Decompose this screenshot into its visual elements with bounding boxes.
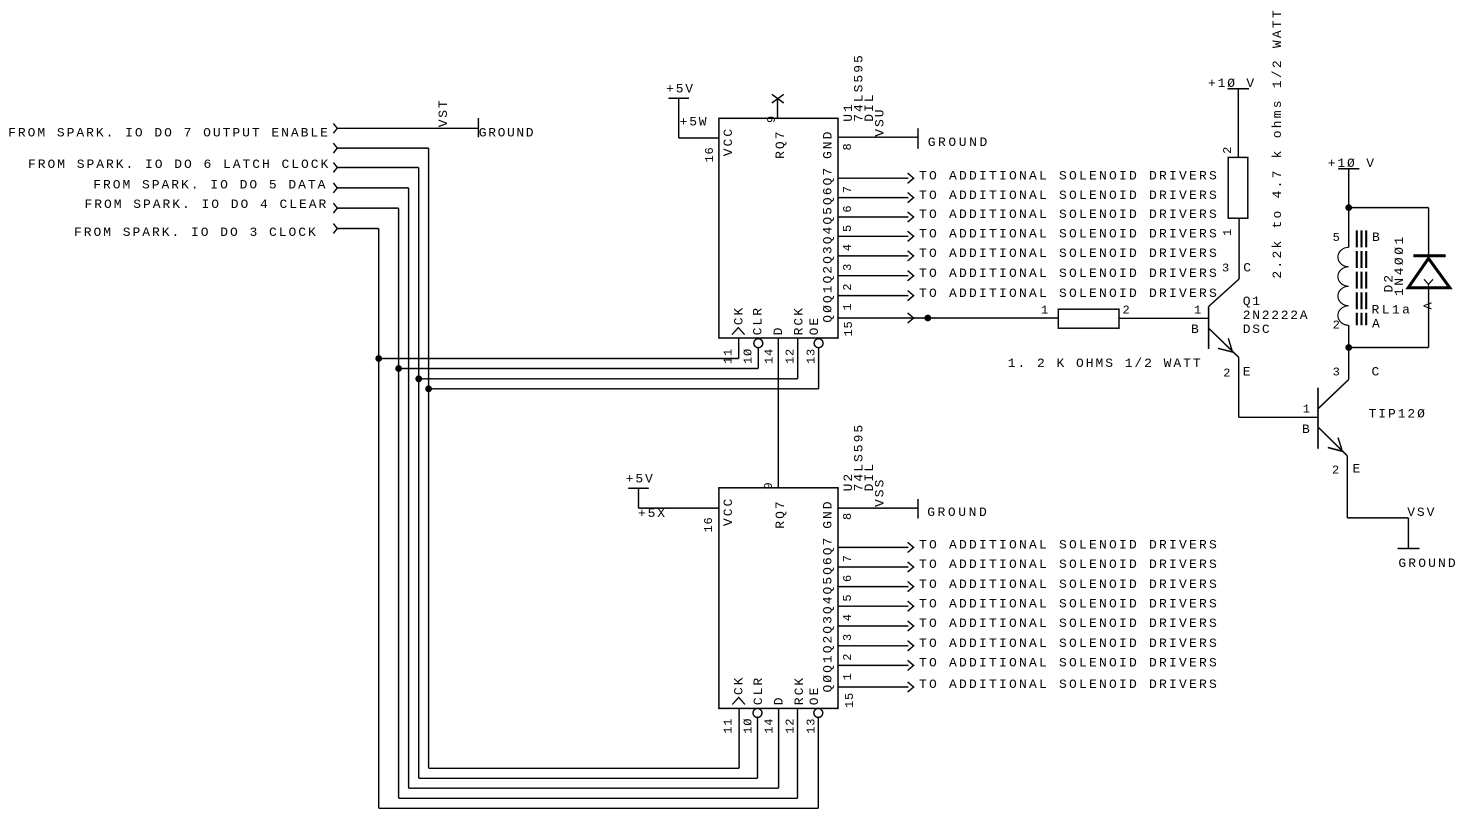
svg-text:4: 4 (841, 613, 855, 621)
wire U1.D (pin 14) to U2.RQ7 (pin 9) (777, 338, 779, 488)
input connector arrow 4 (333, 183, 337, 193)
svg-text:14: 14 (763, 718, 777, 734)
svg-text:3: 3 (1333, 366, 1341, 380)
resistor R 1.2K body (1058, 309, 1119, 328)
svg-text:2: 2 (1221, 146, 1235, 154)
svg-text:TO ADDITIONAL SOLENOID DRIVERS: TO ADDITIONAL SOLENOID DRIVERS (919, 538, 1219, 553)
U1 Q4 output arrow (908, 231, 914, 241)
TIP120 base bar (1317, 388, 1319, 449)
svg-text:1. 2 K OHMS 1/2 WATT: 1. 2 K OHMS 1/2 WATT (1008, 356, 1203, 371)
Q0 wire continuation arrow (908, 313, 914, 323)
wire input row 4 horizontal (337, 187, 408, 189)
input connector arrow 1 (333, 123, 337, 133)
wire input row 3 horizontal (337, 167, 418, 169)
Q1 emitter diagonal (1209, 328, 1239, 357)
svg-text:D: D (771, 326, 786, 336)
svg-text:+5X: +5X (638, 506, 667, 521)
relay coil top lead (1348, 208, 1350, 248)
svg-text:GND: GND (821, 499, 836, 528)
svg-text:1: 1 (1041, 304, 1049, 318)
svg-text:CLR: CLR (751, 306, 766, 335)
svg-text:6: 6 (841, 574, 855, 582)
wire Q1 emitter to TIP120 base (1239, 416, 1318, 418)
svg-text:TO ADDITIONAL SOLENOID DRIVERS: TO ADDITIONAL SOLENOID DRIVERS (919, 577, 1219, 592)
svg-text:TO ADDITIONAL SOLENOID DRIVERS: TO ADDITIONAL SOLENOID DRIVERS (919, 246, 1219, 261)
svg-text:14: 14 (763, 348, 777, 364)
wire +10V to relay top (1348, 169, 1350, 208)
svg-text:GROUND: GROUND (928, 135, 990, 150)
svg-text:2N2222A: 2N2222A (1243, 308, 1310, 323)
U2 output arrow row 6 (908, 641, 914, 651)
svg-text:C: C (1243, 261, 1253, 276)
svg-text:1N4ØØ1: 1N4ØØ1 (1392, 234, 1407, 296)
U2 pin 12 stub (797, 708, 799, 798)
Q1 emitter arrow (1218, 338, 1234, 352)
wire to U2 pin 12 (399, 797, 798, 799)
svg-text:+5V: +5V (666, 81, 695, 96)
wire input row 2 horizontal (337, 147, 428, 149)
wire +5X to U2 VCC (639, 507, 719, 509)
svg-text:2: 2 (1333, 319, 1341, 333)
svg-text:GND: GND (821, 130, 836, 159)
svg-text:E: E (1353, 462, 1363, 477)
wire pullup resistor to Q1 collector (1238, 218, 1240, 279)
svg-text:2: 2 (841, 653, 855, 661)
svg-text:8: 8 (841, 512, 855, 520)
relay RL1a core bars (1356, 230, 1358, 325)
U1 Q1 output arrow (908, 291, 914, 301)
svg-text:VCC: VCC (721, 497, 736, 526)
svg-text:TO ADDITIONAL SOLENOID DRIVERS: TO ADDITIONAL SOLENOID DRIVERS (919, 557, 1219, 572)
U2 OE inversion bubble (814, 708, 823, 717)
svg-text:FROM SPARK. IO DO 4 CLEAR: FROM SPARK. IO DO 4 CLEAR (85, 197, 329, 212)
svg-text:15: 15 (843, 692, 857, 708)
svg-text:TO ADDITIONAL SOLENOID DRIVERS: TO ADDITIONAL SOLENOID DRIVERS (919, 656, 1219, 671)
svg-text:1: 1 (1221, 228, 1235, 236)
svg-text:FROM SPARK. IO DO 5 DATA: FROM SPARK. IO DO 5 DATA (93, 177, 327, 192)
U2 Q0 output wire (838, 686, 908, 688)
U1 Q4 output wire (838, 235, 908, 237)
svg-text:CK: CK (731, 306, 746, 326)
U1 OE inversion bubble (814, 339, 823, 348)
U1 Q6 output arrow (908, 193, 914, 203)
svg-text:D: D (771, 695, 786, 705)
svg-text:6: 6 (841, 205, 855, 213)
U1 +5V power bar (668, 97, 689, 99)
input connector arrow 2 (333, 143, 337, 153)
U1 pin 12 stub (797, 338, 799, 379)
svg-text:8: 8 (841, 142, 855, 150)
svg-text:GROUND: GROUND (927, 505, 989, 520)
wire diode cathode vertical (1428, 208, 1430, 256)
U1 Q5 output arrow (908, 212, 914, 222)
svg-text:9: 9 (762, 481, 776, 489)
wire input row 5 horizontal (337, 207, 398, 209)
U2 Q2 output wire (838, 645, 908, 647)
U1 pin 10 stub below bubble (757, 348, 759, 369)
svg-text:GROUND: GROUND (1398, 556, 1457, 571)
svg-text:QØQ1Q2Q3Q4Q5Q6Q7: QØQ1Q2Q3Q4Q5Q6Q7 (821, 536, 836, 693)
wire CLOCK to U1 pin 11 (379, 358, 739, 360)
U1 +5V stem (678, 98, 680, 138)
svg-text:5: 5 (1333, 231, 1341, 245)
U2 +5V stem (638, 488, 640, 508)
wire +5W to U1 VCC (679, 137, 719, 139)
svg-text:3: 3 (841, 263, 855, 271)
svg-text:TO ADDITIONAL SOLENOID DRIVERS: TO ADDITIONAL SOLENOID DRIVERS (919, 596, 1219, 611)
svg-text:2: 2 (1123, 304, 1131, 318)
+10V underline bar (pullup) (1228, 88, 1250, 90)
svg-text:FROM SPARK. IO DO 6 LATCH CLOC: FROM SPARK. IO DO 6 LATCH CLOCK (28, 157, 330, 172)
U2 pin 10 stub below bubble (757, 717, 759, 778)
ground bar VSV (1398, 548, 1420, 550)
U1 Q2 output wire (838, 275, 908, 277)
junction CLEAR/U1.CLR (395, 365, 402, 372)
svg-text:2: 2 (1223, 367, 1231, 381)
wire Q1 emitter vertical (1238, 357, 1240, 417)
wire bus vertical x=428.6 (428, 148, 430, 768)
ground terminal tick VST (477, 118, 479, 137)
diode D2 1N4001 cathode bar (1413, 254, 1445, 257)
svg-text:B: B (1372, 230, 1382, 245)
U1 CLR inversion bubble (754, 339, 763, 348)
U2 output arrow row 2 (908, 562, 914, 572)
U1 Q1 output wire (838, 295, 908, 297)
diode pin marker (1424, 279, 1433, 288)
U2 output arrow row 3 (908, 582, 914, 592)
svg-text:RQ7: RQ7 (773, 129, 788, 158)
U2 Q5 output wire (838, 586, 908, 588)
U1 Q6 output wire (838, 197, 908, 199)
U2 output arrow row 4 (908, 601, 914, 611)
U1 Q7 output arrow (908, 173, 914, 183)
svg-text:VSV: VSV (1407, 505, 1436, 520)
svg-text:3: 3 (841, 633, 855, 641)
svg-text:12: 12 (784, 718, 798, 734)
+10V underline bar (relay) (1338, 168, 1359, 170)
junction OE/U1.OE (425, 385, 432, 392)
wire to U2 pin 11 (429, 767, 739, 769)
wire bus vertical x=408.6 (408, 188, 410, 788)
svg-text:TO ADDITIONAL SOLENOID DRIVERS: TO ADDITIONAL SOLENOID DRIVERS (919, 188, 1219, 203)
svg-text:CLR: CLR (751, 676, 766, 705)
wire relay bottom to TIP120 collector (1348, 348, 1350, 380)
svg-text:RL1a: RL1a (1372, 303, 1413, 318)
svg-text:TIP12Ø: TIP12Ø (1369, 407, 1427, 422)
TIP120 emitter arrow (1328, 438, 1344, 452)
U2 CLR inversion bubble (753, 708, 762, 717)
resistor R pullup body (1228, 157, 1248, 218)
Q1 base bar (1208, 307, 1210, 350)
wire net VST (OE input row to ground) (337, 127, 478, 129)
svg-text:1Ø: 1Ø (742, 718, 756, 734)
TIP120 emitter vertical wire (1346, 456, 1348, 518)
junction relay bottom (1345, 344, 1352, 351)
wire bus vertical x=418.7 (418, 168, 420, 779)
U1 Q3 output wire (838, 255, 908, 257)
Q1 collector diagonal (1209, 279, 1240, 307)
input connector arrow 3 (333, 163, 337, 173)
U2 pin 13 stub below bubble (817, 717, 819, 808)
U2 output arrow row 1 (908, 542, 914, 552)
svg-text:+5W: +5W (680, 115, 709, 130)
U2 Q4 output wire (838, 605, 908, 607)
svg-text:VSS: VSS (873, 478, 888, 507)
wire diode anode vertical (1428, 288, 1430, 348)
svg-text:RQ7: RQ7 (773, 499, 788, 528)
wire U2 GND to ground (838, 507, 918, 509)
svg-text:13: 13 (805, 348, 819, 364)
svg-text:VST: VST (436, 98, 451, 127)
wire emitter to ground (net VSV) (1347, 517, 1408, 519)
wire LATCH to U1 pin 12 (419, 378, 798, 380)
svg-text:TO ADDITIONAL SOLENOID DRIVERS: TO ADDITIONAL SOLENOID DRIVERS (919, 636, 1219, 651)
svg-text:16: 16 (703, 146, 717, 162)
TIP120 collector diagonal (1319, 380, 1349, 409)
svg-text:TO ADDITIONAL SOLENOID DRIVERS: TO ADDITIONAL SOLENOID DRIVERS (919, 286, 1219, 301)
svg-text:15: 15 (842, 320, 856, 336)
svg-text:VCC: VCC (721, 127, 736, 156)
svg-text:RCK: RCK (792, 676, 807, 705)
svg-text:TO ADDITIONAL SOLENOID DRIVERS: TO ADDITIONAL SOLENOID DRIVERS (919, 677, 1219, 692)
U1 Q3 output arrow (908, 251, 914, 261)
svg-text:A: A (1372, 317, 1382, 332)
svg-text:FROM SPARK. IO DO 3 CLOCK: FROM SPARK. IO DO 3 CLOCK (74, 225, 318, 240)
wire relay top to diode cathode branch (1349, 207, 1429, 209)
svg-text:TO ADDITIONAL SOLENOID DRIVERS: TO ADDITIONAL SOLENOID DRIVERS (919, 616, 1219, 631)
wire relay bottom to diode anode branch (1349, 347, 1429, 349)
svg-text:4: 4 (841, 243, 855, 251)
svg-text:A: A (1422, 301, 1436, 309)
U2 +5V power bar (628, 487, 649, 489)
IC U2 74LS595 body (719, 488, 838, 709)
U2 CK clock wedge (732, 697, 745, 704)
svg-text:RCK: RCK (792, 306, 807, 335)
U2 pin 11 stub (738, 708, 740, 768)
svg-text:11: 11 (722, 718, 736, 734)
svg-text:E: E (1243, 365, 1253, 380)
U1 CK clock wedge (732, 328, 745, 335)
wire U1 Q0 (pin 15) to R base resistor (838, 317, 1058, 319)
svg-text:FROM SPARK. IO DO 7 OUTPUT ENA: FROM SPARK. IO DO 7 OUTPUT ENABLE (8, 126, 330, 141)
wire OE to U1 pin 13 (429, 388, 819, 390)
wire bus vertical x=378.7 (378, 229, 380, 809)
svg-text:OE: OE (807, 686, 822, 706)
ground stem VSV (1407, 518, 1409, 549)
diode D2 1N4001 triangle (1408, 258, 1450, 287)
wire to U2 pin 10 (419, 777, 758, 779)
wire input row 6 horizontal (337, 228, 378, 230)
svg-text:12: 12 (784, 348, 798, 364)
svg-text:1: 1 (1194, 304, 1202, 318)
svg-text:5: 5 (841, 224, 855, 232)
wire R to Q1 base (1119, 317, 1209, 319)
svg-text:2: 2 (841, 283, 855, 291)
svg-text:B: B (1302, 422, 1312, 437)
svg-text:3: 3 (1222, 262, 1230, 276)
ground terminal tick U2 (917, 499, 919, 519)
U2 output arrow row 8 (908, 682, 914, 692)
wire to U2 pin 13 (379, 807, 819, 809)
svg-text:OE: OE (807, 316, 822, 336)
svg-text:DSC: DSC (1243, 322, 1272, 337)
svg-text:C: C (1372, 365, 1382, 380)
svg-text:CK: CK (732, 675, 747, 695)
input connector arrow 6 (333, 224, 337, 234)
wire CLEAR to U1 pin 10 (399, 368, 759, 370)
svg-text:QØQ1Q2Q3Q4Q5Q6Q7: QØQ1Q2Q3Q4Q5Q6Q7 (821, 166, 836, 323)
svg-text:+5V: +5V (626, 471, 655, 486)
junction LATCH/U1.RCK (415, 375, 422, 382)
U2 output arrow row 7 (908, 660, 914, 670)
svg-text:TO ADDITIONAL SOLENOID DRIVERS: TO ADDITIONAL SOLENOID DRIVERS (919, 266, 1219, 281)
IC U1 74LS595 body (719, 118, 838, 338)
svg-text:1: 1 (841, 303, 855, 311)
svg-text:TO ADDITIONAL SOLENOID DRIVERS: TO ADDITIONAL SOLENOID DRIVERS (919, 207, 1219, 222)
U1 pin 13 stub below bubble (818, 348, 820, 389)
svg-text:1: 1 (1303, 403, 1311, 417)
svg-text:1Ø: 1Ø (742, 348, 756, 364)
U2 Q7 output wire (838, 546, 908, 548)
ground terminal tick U1 (917, 128, 919, 149)
TIP120 emitter diagonal (1319, 428, 1348, 456)
svg-text:5: 5 (841, 594, 855, 602)
svg-text:16: 16 (702, 516, 716, 532)
svg-text:TO ADDITIONAL SOLENOID DRIVERS: TO ADDITIONAL SOLENOID DRIVERS (919, 168, 1219, 183)
svg-text:VSU: VSU (873, 107, 888, 136)
svg-text:B: B (1191, 322, 1201, 337)
wire bus vertical x=398.6 (398, 208, 400, 798)
U1 Q5 output wire (838, 216, 908, 218)
junction CLOCK/U1.CK (375, 355, 382, 362)
wire +10V to pullup resistor (1237, 89, 1239, 158)
svg-text:TO ADDITIONAL SOLENOID DRIVERS: TO ADDITIONAL SOLENOID DRIVERS (919, 227, 1219, 242)
svg-text:2: 2 (1332, 464, 1340, 478)
U1 pin 9 no-connect X (772, 94, 784, 103)
U1 Q7 output wire (838, 177, 908, 179)
wire DATA to U2 pin 14 (409, 787, 779, 789)
svg-text:GROUND: GROUND (479, 126, 535, 141)
svg-text:7: 7 (841, 185, 855, 193)
U1 Q2 output arrow (908, 271, 914, 281)
svg-text:2.2k to 4.7 k ohms 1/2 WATT: 2.2k to 4.7 k ohms 1/2 WATT (1270, 8, 1285, 279)
junction on Q0 wire (924, 315, 931, 322)
svg-text:11: 11 (722, 348, 736, 364)
relay RL1a coil arcs (1338, 247, 1349, 325)
U1 pin 11 stub (738, 338, 740, 359)
U2 Q6 output wire (838, 566, 908, 568)
svg-text:1: 1 (841, 672, 855, 680)
svg-text:7: 7 (841, 554, 855, 562)
U2 Q3 output wire (838, 625, 908, 627)
wire U1 GND to ground (838, 136, 918, 138)
relay coil bottom lead (1348, 325, 1350, 347)
U2 pin 14 stub (778, 708, 780, 788)
svg-text:Q1: Q1 (1243, 294, 1262, 309)
U2 output arrow row 5 (908, 621, 914, 631)
input connector arrow 5 (333, 203, 337, 213)
svg-text:13: 13 (805, 718, 819, 734)
U1 pin 9 stub (777, 99, 779, 119)
U2 Q1 output wire (838, 664, 908, 666)
junction relay top (1345, 204, 1352, 211)
